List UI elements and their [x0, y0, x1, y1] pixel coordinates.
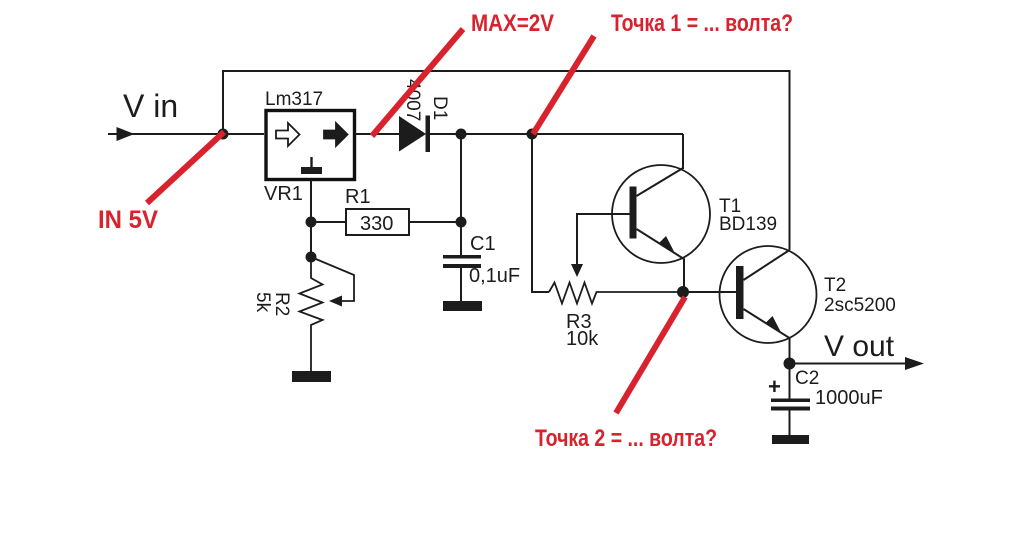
wire V out	[790, 363, 919, 365]
svg-text:VR1: VR1	[264, 183, 303, 205]
node junction at input (223,134)	[218, 129, 229, 140]
svg-text:V in: V in	[123, 88, 178, 124]
svg-text:Точка 2 = ... волта?: Точка 2 = ... волта?	[535, 425, 717, 452]
svg-text:C1: C1	[470, 233, 496, 255]
red annotation line tochka 1	[533, 36, 594, 134]
wire input V in	[108, 133, 264, 135]
red annotation line tochka 2	[616, 297, 685, 413]
svg-text:5k: 5k	[252, 292, 273, 313]
VR1 adj pin mark	[310, 157, 312, 167]
wire top rail from input node to T2 collector	[223, 71, 790, 250]
svg-text:BD139: BD139	[719, 214, 777, 235]
svg-text:IN 5V: IN 5V	[98, 206, 158, 234]
red annotation line IN 5V	[147, 132, 224, 203]
node junction R1 right / C1 (461,222)	[456, 217, 467, 228]
svg-text:MAX=2V: MAX=2V	[471, 10, 554, 37]
wire to T2 base	[683, 291, 736, 293]
VR1 input open arrow	[276, 123, 300, 146]
svg-text:V out: V out	[824, 330, 895, 363]
T1 base wire and wiper arrow to R3	[577, 214, 630, 266]
op-amp U1 regulator VR1 Lm317 box	[266, 111, 355, 180]
svg-text:10k: 10k	[566, 328, 599, 350]
node junction above C1 (461,134)	[456, 129, 467, 140]
svg-text:T2: T2	[824, 275, 846, 296]
svg-text:C2: C2	[795, 368, 819, 389]
capacitor C2	[789, 364, 791, 400]
capacitor C1	[443, 255, 481, 259]
diode D1	[399, 116, 426, 152]
svg-text:D1: D1	[429, 96, 450, 120]
T2 collector	[744, 250, 790, 280]
T1 emitter	[637, 229, 685, 292]
R2 wiper	[311, 257, 354, 301]
wire down to R3	[532, 134, 549, 292]
input direction arrow	[117, 127, 135, 141]
svg-text:Точка 1 = ... волта?: Точка 1 = ... волта?	[611, 10, 793, 37]
T2 emitter	[744, 309, 790, 364]
ground C1	[443, 301, 482, 311]
wire VR1 out to D1	[355, 133, 400, 135]
svg-text:0,1uF: 0,1uF	[469, 265, 520, 287]
red annotation line MAX=2V	[372, 29, 463, 136]
node junction R2 top (311,257)	[306, 252, 317, 263]
node junction V out (789.5,363.5)	[784, 358, 796, 370]
potentiometer R2 zigzag	[300, 257, 323, 371]
svg-text:1000uF: 1000uF	[815, 387, 883, 409]
T2 base bar	[736, 266, 744, 319]
svg-text:2sc5200: 2sc5200	[824, 295, 896, 316]
VR1 output filled arrow	[324, 123, 348, 146]
svg-text:+: +	[768, 374, 781, 399]
ground C2	[772, 435, 809, 444]
transistor T1 circle	[612, 165, 710, 263]
wire VR1 adj down	[310, 180, 312, 257]
svg-text:R2: R2	[271, 292, 292, 316]
node junction point 1 (532,134)	[527, 129, 538, 140]
svg-text:330: 330	[360, 213, 393, 235]
ground R2	[292, 371, 331, 382]
wire down to C1	[460, 134, 462, 256]
T1 collector	[637, 168, 684, 196]
resistor R1 box	[311, 221, 461, 223]
T1 base bar	[630, 187, 637, 239]
transistor T2 circle	[720, 246, 817, 343]
wire D1 to T1 collector drop	[429, 134, 683, 169]
node junction R1 left (311,222)	[306, 217, 317, 228]
resistor R3 zigzag	[549, 283, 683, 304]
node junction point 2 (683,292)	[677, 286, 689, 298]
svg-text:R1: R1	[345, 186, 371, 208]
svg-text:Lm317: Lm317	[265, 89, 323, 110]
